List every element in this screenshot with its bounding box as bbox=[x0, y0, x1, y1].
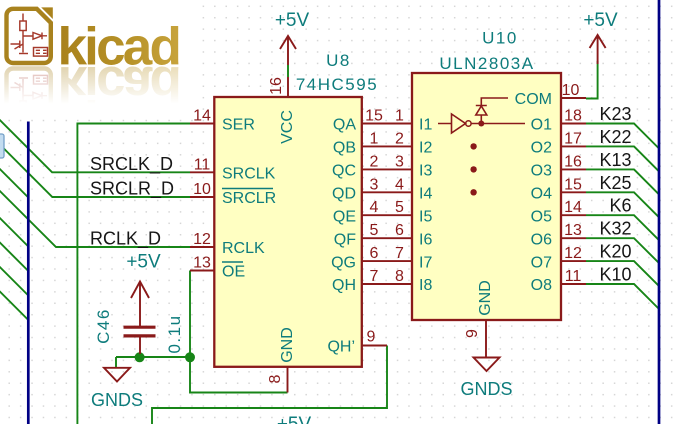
svg-text:9: 9 bbox=[367, 329, 376, 346]
svg-text:GNDS: GNDS bbox=[91, 390, 143, 410]
svg-text:11: 11 bbox=[565, 268, 582, 285]
svg-text:GNDS: GNDS bbox=[460, 379, 512, 399]
svg-text:I5: I5 bbox=[419, 208, 432, 225]
svg-text:16: 16 bbox=[564, 153, 582, 170]
svg-text:VCC: VCC bbox=[279, 110, 296, 144]
svg-text:C46: C46 bbox=[94, 308, 113, 344]
svg-text:+5V: +5V bbox=[126, 252, 161, 273]
svg-text:2: 2 bbox=[395, 130, 404, 147]
svg-text:I2: I2 bbox=[419, 140, 432, 157]
svg-text:K25: K25 bbox=[599, 173, 631, 193]
svg-text:+5V: +5V bbox=[583, 10, 618, 31]
svg-text:K6: K6 bbox=[609, 196, 631, 216]
svg-text:O4: O4 bbox=[531, 185, 552, 202]
svg-text:O7: O7 bbox=[531, 254, 552, 271]
svg-text:QF: QF bbox=[334, 231, 356, 248]
svg-text:4: 4 bbox=[370, 199, 379, 216]
svg-text:+5V: +5V bbox=[275, 10, 310, 31]
svg-text:15: 15 bbox=[365, 108, 383, 125]
svg-text:QA: QA bbox=[333, 117, 356, 134]
svg-text:SRCLK: SRCLK bbox=[222, 166, 276, 183]
svg-text:O1: O1 bbox=[531, 117, 552, 134]
svg-text:K23: K23 bbox=[599, 104, 631, 124]
svg-text:10: 10 bbox=[193, 181, 211, 198]
svg-text:GND: GND bbox=[477, 280, 494, 316]
svg-text:O5: O5 bbox=[531, 208, 552, 225]
svg-text:15: 15 bbox=[564, 176, 582, 193]
svg-text:O3: O3 bbox=[531, 163, 552, 180]
svg-text:6: 6 bbox=[370, 245, 379, 262]
svg-text:I4: I4 bbox=[419, 185, 432, 202]
svg-text:8: 8 bbox=[267, 374, 284, 383]
svg-text:K13: K13 bbox=[599, 150, 631, 170]
svg-text:QH: QH bbox=[332, 277, 356, 294]
svg-text:K22: K22 bbox=[599, 127, 631, 147]
svg-text:7: 7 bbox=[395, 245, 404, 262]
svg-text:SER: SER bbox=[222, 117, 255, 134]
svg-text:1: 1 bbox=[395, 108, 404, 125]
svg-text:12: 12 bbox=[564, 245, 582, 262]
svg-text:O2: O2 bbox=[531, 140, 552, 157]
svg-text:14: 14 bbox=[193, 108, 211, 125]
svg-text:0.1u: 0.1u bbox=[165, 314, 184, 353]
svg-text:O8: O8 bbox=[531, 277, 552, 294]
svg-text:RCLK_D: RCLK_D bbox=[90, 229, 161, 250]
svg-text:COM: COM bbox=[515, 91, 552, 108]
svg-text:K20: K20 bbox=[599, 242, 631, 262]
svg-text:5: 5 bbox=[370, 222, 379, 239]
svg-text:I6: I6 bbox=[419, 231, 432, 248]
svg-text:17: 17 bbox=[564, 130, 582, 147]
svg-text:I7: I7 bbox=[419, 254, 432, 271]
svg-text:O6: O6 bbox=[531, 231, 552, 248]
svg-text:ULN2803A: ULN2803A bbox=[439, 54, 534, 73]
svg-text:5: 5 bbox=[395, 199, 404, 216]
svg-text:GND: GND bbox=[279, 327, 296, 363]
svg-text:12: 12 bbox=[193, 231, 211, 248]
svg-text:QG: QG bbox=[331, 254, 356, 271]
svg-text:kicad: kicad bbox=[58, 18, 180, 77]
svg-text:3: 3 bbox=[395, 153, 404, 170]
svg-text:RCLK: RCLK bbox=[222, 240, 265, 257]
svg-text:I3: I3 bbox=[419, 163, 432, 180]
svg-text:OE: OE bbox=[222, 264, 245, 281]
svg-text:18: 18 bbox=[564, 108, 582, 125]
svg-text:13: 13 bbox=[193, 255, 211, 272]
svg-text:2: 2 bbox=[370, 153, 379, 170]
svg-text:K10: K10 bbox=[599, 265, 631, 285]
svg-text:74HC595: 74HC595 bbox=[296, 75, 378, 94]
svg-text:13: 13 bbox=[564, 222, 582, 239]
svg-text:U10: U10 bbox=[482, 29, 518, 48]
svg-text:K32: K32 bbox=[599, 219, 631, 239]
svg-text:9: 9 bbox=[464, 329, 481, 338]
svg-text:QE: QE bbox=[333, 208, 356, 225]
svg-text:U8: U8 bbox=[326, 51, 351, 70]
svg-text:11: 11 bbox=[194, 157, 211, 174]
svg-text:QD: QD bbox=[332, 185, 356, 202]
svg-text:SRCLK_D: SRCLK_D bbox=[90, 154, 173, 175]
svg-text:SRCLR_D: SRCLR_D bbox=[90, 179, 174, 200]
svg-text:10: 10 bbox=[562, 82, 580, 99]
svg-text:7: 7 bbox=[370, 268, 379, 285]
svg-text:1: 1 bbox=[370, 130, 379, 147]
svg-text:6: 6 bbox=[395, 222, 404, 239]
svg-text:4: 4 bbox=[395, 176, 404, 193]
svg-text:QB: QB bbox=[333, 140, 356, 157]
svg-text:QH’: QH’ bbox=[327, 339, 355, 356]
svg-text:QC: QC bbox=[332, 163, 356, 180]
svg-text:3: 3 bbox=[370, 176, 379, 193]
svg-text:SRCLR: SRCLR bbox=[222, 190, 276, 207]
svg-text:+5V: +5V bbox=[277, 414, 312, 424]
svg-text:8: 8 bbox=[395, 268, 404, 285]
svg-text:14: 14 bbox=[564, 199, 582, 216]
svg-text:I8: I8 bbox=[419, 277, 432, 294]
svg-text:I1: I1 bbox=[419, 117, 432, 134]
svg-text:16: 16 bbox=[268, 77, 285, 95]
